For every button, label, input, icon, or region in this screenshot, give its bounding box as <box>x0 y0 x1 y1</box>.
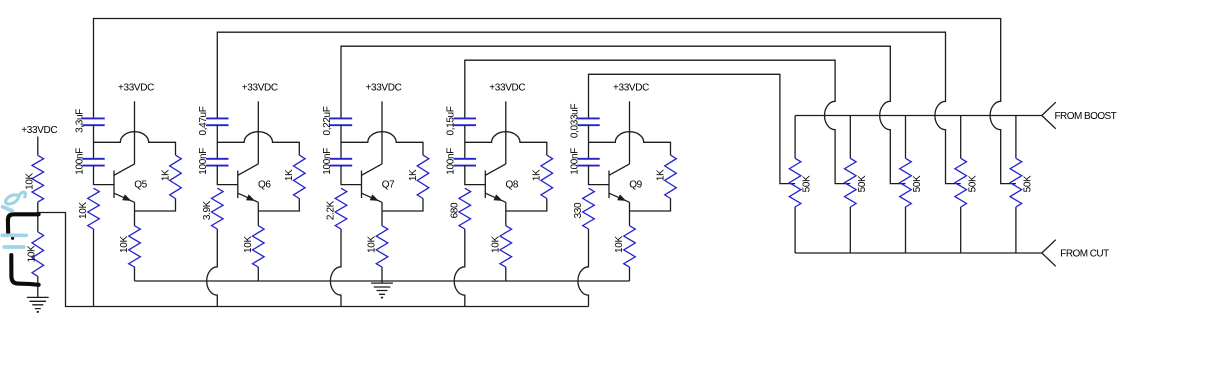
svg-text:1K: 1K <box>160 169 171 181</box>
wire emitter of Q7 to node <box>381 202 383 211</box>
wire band-2 bus from stage Q6 cap to pot wiper (hops over boost line) <box>217 32 960 183</box>
svg-text:0,22uF: 0,22uF <box>322 106 333 135</box>
capacitor C 0,47uF stage Q6 <box>198 106 228 135</box>
wire 50K pot 3 to cut line <box>905 207 907 253</box>
svg-text:50K: 50K <box>967 175 978 192</box>
node +33VDC input divider <box>21 125 57 136</box>
wire node to 10K emitter resistor Q5 <box>134 211 136 226</box>
capacitor C 100nF stage Q6 <box>198 148 228 175</box>
wire 100nF to base of Q9 <box>589 166 610 185</box>
wire emitter 10K of Q9 to ground rail <box>629 267 631 281</box>
node FROM CUT arrow <box>1042 240 1056 267</box>
node FROM BOOST label <box>1055 111 1117 122</box>
wire boost line to 50K pot 4 <box>960 116 962 159</box>
resistor 50K pot band 1 <box>789 158 812 207</box>
capacitor C 100nF stage Q7 <box>322 148 352 175</box>
wire ground stub stage Q7 <box>381 281 383 283</box>
capacitor C 0,15uF stage Q8 <box>446 106 476 135</box>
wire emitter 10K of Q5 to ground rail <box>134 267 136 281</box>
svg-text:10K: 10K <box>24 172 35 189</box>
svg-text:0,47uF: 0,47uF <box>198 106 209 135</box>
wire branch to 1K (hops over +33VDC line) stage Q5 <box>94 132 176 155</box>
resistor 50K pot band 2 <box>845 158 868 207</box>
annotation cyan dash 2 <box>4 245 24 249</box>
wire 100nF to base of Q8 <box>465 166 486 185</box>
wire emitter of Q8 to node <box>505 202 507 211</box>
svg-text:2.2K: 2.2K <box>326 200 337 220</box>
wire boost line to 50K pot 3 <box>905 116 907 159</box>
svg-text:10K: 10K <box>243 236 254 253</box>
svg-text:330: 330 <box>573 202 584 218</box>
svg-text:50K: 50K <box>802 175 813 192</box>
wire 50K pot 5 to cut line <box>1015 207 1017 253</box>
resistor 10K emitter Q9 <box>614 226 635 267</box>
svg-text:10K: 10K <box>614 236 625 253</box>
wire 1K bottom to emitter node Q5 <box>135 199 176 212</box>
wire 1K bottom to emitter node Q6 <box>258 199 299 212</box>
wire boost line to 50K pot 1 <box>794 116 796 159</box>
resistor 10K emitter Q5 <box>119 226 140 267</box>
wire branch to 1K (hops over +33VDC line) stage Q7 <box>341 132 423 155</box>
svg-text:10K: 10K <box>26 245 37 262</box>
wire band-1 bus from stage Q5 cap to pot wiper (hops over boost line) <box>94 19 1016 184</box>
wire emitter of Q6 to node <box>257 202 259 211</box>
resistor 1K stage Q8 <box>532 155 553 198</box>
wire FROM BOOST line <box>795 115 1042 117</box>
wire branch to 1K (hops over +33VDC line) stage Q6 <box>217 132 299 155</box>
svg-text:Q9: Q9 <box>629 179 642 190</box>
svg-text:Q6: Q6 <box>258 179 271 190</box>
resistor 10K upper divider <box>24 155 43 202</box>
wire ground rail <box>135 280 630 282</box>
wire +33VDC to collector of Q5 <box>134 101 136 164</box>
svg-text:+33VDC: +33VDC <box>21 125 57 136</box>
wire boost line to 50K pot 2 <box>849 116 851 159</box>
resistor 10K emitter Q8 <box>491 226 512 267</box>
node +33VDC supply stage Q7 <box>366 82 402 93</box>
node FROM CUT label <box>1060 249 1109 260</box>
transistor Q8 <box>485 164 519 202</box>
wire upper 10K to node <box>37 202 39 213</box>
wire between caps stage Q5 <box>93 125 95 159</box>
svg-text:10K: 10K <box>119 236 130 253</box>
wire emitter 10K of Q7 to ground rail <box>381 267 383 281</box>
svg-text:10K: 10K <box>367 236 378 253</box>
svg-text:100nF: 100nF <box>198 148 209 175</box>
svg-text:1K: 1K <box>284 169 295 181</box>
resistor 3.9K base bias Q6 <box>202 188 223 229</box>
transistor Q7 <box>362 164 396 202</box>
wire node to 10K emitter resistor Q6 <box>257 211 259 226</box>
wire node to 10K emitter resistor Q8 <box>505 211 507 226</box>
wire emitter 10K of Q8 to ground rail <box>505 267 507 281</box>
resistor 1K stage Q6 <box>284 155 305 198</box>
capacitor C 0,033uF stage Q9 <box>569 104 599 138</box>
svg-text:+33VDC: +33VDC <box>242 82 278 93</box>
annotation cyan scribble <box>3 192 26 211</box>
annotation cyan dash 1 <box>2 233 26 237</box>
resistor 50K pot band 5 <box>1010 158 1033 207</box>
transistor Q9 <box>609 164 643 202</box>
svg-text:100nF: 100nF <box>446 148 457 175</box>
svg-text:100nF: 100nF <box>322 148 333 175</box>
ground under stage Q7 <box>371 283 393 298</box>
capacitor C 100nF stage Q8 <box>446 148 476 175</box>
svg-text:0,033uF: 0,033uF <box>569 104 580 138</box>
resistor 1K stage Q7 <box>408 155 429 198</box>
wire 100nF to base of Q6 <box>217 166 238 185</box>
node +33VDC supply stage Q8 <box>489 82 525 93</box>
svg-text:680: 680 <box>450 202 461 218</box>
wire 2.2K to bottom rail (hops over ground rail) <box>330 229 341 307</box>
wire between caps stage Q7 <box>340 125 342 159</box>
svg-text:50K: 50K <box>912 175 923 192</box>
transistor Q5 <box>114 164 148 202</box>
resistor 10K lower divider <box>26 232 43 277</box>
svg-text:Q5: Q5 <box>134 179 147 190</box>
resistor 50K pot band 3 <box>900 158 923 207</box>
resistor 10K base bias Q5 <box>78 188 99 229</box>
wire node to 10K emitter resistor Q9 <box>629 211 631 226</box>
wire branch to 1K (hops over +33VDC line) stage Q8 <box>465 132 547 155</box>
svg-text:Q8: Q8 <box>506 179 519 190</box>
wire FROM CUT line <box>795 252 1042 254</box>
svg-text:Q7: Q7 <box>382 179 395 190</box>
wire +33VDC to collector of Q7 <box>381 101 383 164</box>
wire 3.9K to bottom rail (hops over ground rail) <box>207 229 218 307</box>
transistor Q6 <box>238 164 272 202</box>
svg-text:+33VDC: +33VDC <box>366 82 402 93</box>
wire between caps stage Q6 <box>216 125 218 159</box>
resistor 10K emitter Q7 <box>367 226 388 267</box>
ground input divider <box>27 297 49 312</box>
wire 10K to bottom rail <box>93 229 95 307</box>
capacitor C 100nF stage Q9 <box>569 148 599 175</box>
svg-text:100nF: 100nF <box>569 148 580 175</box>
wire branch to 1K (hops over +33VDC line) stage Q9 <box>589 132 671 155</box>
wire node to lower 10K <box>37 213 39 232</box>
resistor 1K stage Q5 <box>160 155 181 198</box>
svg-text:50K: 50K <box>857 175 868 192</box>
node +33VDC supply stage Q9 <box>613 82 649 93</box>
wire lower 10K to ground <box>37 276 39 297</box>
node FROM BOOST arrow <box>1042 102 1056 129</box>
wire boost line to 50K pot 5 <box>1015 116 1017 159</box>
resistor 10K emitter Q6 <box>243 226 264 267</box>
svg-text:3.9K: 3.9K <box>202 200 213 220</box>
wire band-3 bus from stage Q7 cap to pot wiper (hops over boost line) <box>341 46 906 183</box>
svg-text:100nF: 100nF <box>74 148 85 175</box>
resistor 330 base bias Q9 <box>573 188 594 229</box>
wire input node to bottom rail <box>38 213 589 307</box>
wire 1K bottom to emitter node Q8 <box>506 199 547 212</box>
svg-text:0,15uF: 0,15uF <box>446 106 457 135</box>
svg-text:FROM BOOST: FROM BOOST <box>1055 111 1117 122</box>
wire 1K bottom to emitter node Q9 <box>630 199 671 212</box>
wire band-5 bus from stage Q9 cap to pot wiper <box>589 74 796 183</box>
capacitor C 0,22uF stage Q7 <box>322 106 352 135</box>
wire 100nF to base of Q5 <box>94 166 115 185</box>
wire +33VDC to collector of Q9 <box>629 101 631 164</box>
svg-text:10K: 10K <box>491 236 502 253</box>
svg-text:50K: 50K <box>1023 175 1034 192</box>
wire +33VDC to upper 10K <box>37 137 39 156</box>
wire between caps stage Q8 <box>464 125 466 159</box>
resistor 50K pot band 4 <box>955 158 978 207</box>
wire between caps stage Q9 <box>588 125 590 159</box>
wire emitter of Q9 to node <box>629 202 631 211</box>
capacitor C 100nF stage Q5 <box>74 148 104 175</box>
wire 50K pot 2 to cut line <box>849 207 851 253</box>
svg-text:+33VDC: +33VDC <box>613 82 649 93</box>
wire 1K bottom to emitter node Q7 <box>382 199 423 212</box>
annotation black bracket over lower 10K <box>8 214 39 284</box>
node +33VDC supply stage Q5 <box>118 82 154 93</box>
resistor 2.2K base bias Q7 <box>326 188 347 229</box>
wire +33VDC to collector of Q8 <box>505 101 507 164</box>
wire +33VDC to collector of Q6 <box>257 101 259 164</box>
resistor 1K stage Q9 <box>655 155 676 198</box>
wire emitter 10K of Q6 to ground rail <box>257 267 259 281</box>
wire node to 10K emitter resistor Q7 <box>381 211 383 226</box>
wire 100nF to base of Q7 <box>341 166 362 185</box>
svg-text:3,3uF: 3,3uF <box>74 109 85 133</box>
resistor 680 base bias Q8 <box>450 188 471 229</box>
svg-text:+33VDC: +33VDC <box>118 82 154 93</box>
wire 50K pot 1 to cut line <box>794 207 796 253</box>
node +33VDC supply stage Q6 <box>242 82 278 93</box>
wire band-4 bus from stage Q8 cap to pot wiper (hops over boost line) <box>465 60 851 183</box>
capacitor C 3,3uF stage Q5 <box>74 109 104 133</box>
svg-text:1K: 1K <box>532 169 543 181</box>
svg-text:FROM CUT: FROM CUT <box>1060 249 1109 260</box>
wire 50K pot 4 to cut line <box>960 207 962 253</box>
svg-text:1K: 1K <box>408 169 419 181</box>
wire emitter of Q5 to node <box>134 202 136 211</box>
svg-text:+33VDC: +33VDC <box>489 82 525 93</box>
svg-text:1K: 1K <box>655 169 666 181</box>
wire 680 to bottom rail (hops over ground rail) <box>454 229 465 307</box>
wire 330 to bottom rail (hops over ground rail) <box>578 229 589 307</box>
svg-text:10K: 10K <box>78 202 89 219</box>
